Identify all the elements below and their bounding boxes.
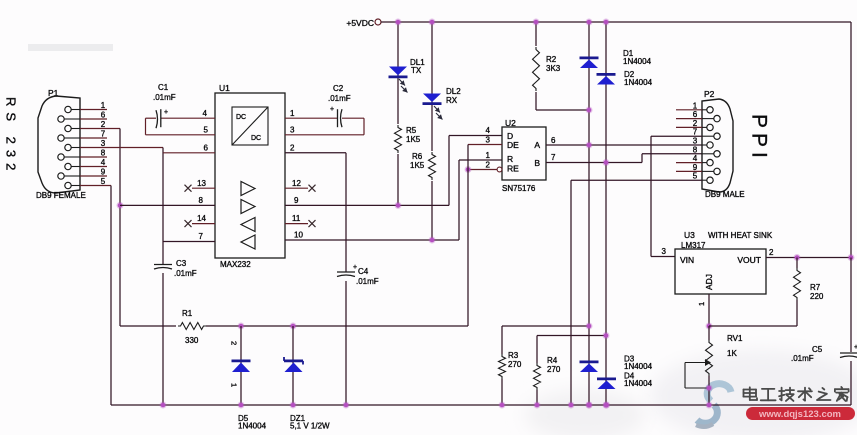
- svg-text:.01mF: .01mF: [356, 277, 379, 286]
- svg-text:4: 4: [693, 154, 698, 163]
- svg-text:MAX232: MAX232: [220, 260, 251, 269]
- svg-text:2: 2: [486, 161, 491, 170]
- svg-text:1: 1: [693, 101, 698, 110]
- svg-text:1N4004: 1N4004: [238, 422, 267, 431]
- svg-text:2: 2: [693, 119, 698, 128]
- svg-text:.01mF: .01mF: [328, 94, 351, 103]
- svg-text:2: 2: [290, 144, 295, 153]
- svg-text:6: 6: [204, 144, 209, 153]
- svg-text:4: 4: [203, 109, 208, 118]
- svg-text:5,1 V 1/2W: 5,1 V 1/2W: [290, 422, 330, 431]
- svg-text:1: 1: [101, 101, 106, 110]
- svg-text:R3: R3: [508, 351, 519, 360]
- svg-text:DE: DE: [507, 140, 519, 150]
- svg-text:7: 7: [101, 130, 106, 139]
- svg-text:LM317: LM317: [681, 241, 706, 250]
- svg-text:DL2: DL2: [446, 87, 461, 96]
- svg-text:1: 1: [230, 383, 239, 387]
- svg-text:R5: R5: [406, 126, 417, 135]
- svg-text:+: +: [353, 264, 357, 271]
- svg-text:C4: C4: [358, 267, 369, 276]
- svg-text:8: 8: [693, 145, 698, 154]
- svg-text:.01mF: .01mF: [174, 269, 197, 278]
- svg-text:6: 6: [101, 111, 106, 120]
- svg-text:R6: R6: [412, 152, 423, 161]
- svg-text:1N4004: 1N4004: [624, 362, 653, 371]
- svg-text:C1: C1: [158, 83, 169, 92]
- svg-text:RX: RX: [446, 96, 458, 105]
- svg-text:SN75176: SN75176: [502, 184, 536, 193]
- svg-text:9: 9: [101, 168, 106, 177]
- svg-text:2: 2: [769, 248, 774, 257]
- svg-text:270: 270: [547, 365, 561, 374]
- svg-text:+: +: [164, 109, 168, 116]
- svg-text:B: B: [534, 158, 540, 168]
- svg-text:P2: P2: [704, 89, 715, 99]
- svg-text:R: R: [507, 154, 513, 164]
- svg-text:1N4004: 1N4004: [624, 78, 653, 87]
- svg-text:U2: U2: [505, 118, 516, 128]
- svg-text:R1: R1: [182, 309, 193, 318]
- svg-text:11: 11: [292, 214, 301, 223]
- svg-text:5: 5: [693, 172, 698, 181]
- svg-text:1: 1: [486, 151, 491, 160]
- svg-text:.01mF: .01mF: [153, 93, 176, 102]
- svg-text:A: A: [534, 140, 540, 150]
- svg-text:8: 8: [199, 196, 204, 205]
- svg-text:9: 9: [693, 163, 698, 172]
- svg-text:4: 4: [486, 126, 491, 135]
- svg-text:2: 2: [101, 120, 106, 129]
- svg-text:U3: U3: [684, 230, 695, 240]
- svg-text:DB9 FEMALE: DB9 FEMALE: [36, 191, 86, 200]
- svg-text:+5VDC: +5VDC: [346, 18, 374, 28]
- svg-text:+: +: [330, 106, 334, 113]
- svg-text:3: 3: [290, 126, 295, 135]
- svg-text:5: 5: [101, 177, 106, 186]
- svg-text:5: 5: [204, 126, 209, 135]
- svg-text:13: 13: [197, 179, 206, 188]
- svg-text:7: 7: [199, 232, 204, 241]
- svg-text:VOUT: VOUT: [737, 255, 761, 265]
- svg-text:ADJ: ADJ: [704, 274, 714, 290]
- svg-text:3: 3: [101, 139, 106, 148]
- svg-text:3K3: 3K3: [546, 64, 561, 73]
- svg-text:1K: 1K: [727, 349, 737, 358]
- svg-text:7: 7: [693, 128, 698, 137]
- svg-text:R2: R2: [546, 55, 557, 64]
- svg-text:RE: RE: [507, 164, 519, 174]
- svg-text:1K5: 1K5: [410, 161, 425, 170]
- svg-text:U1: U1: [219, 83, 230, 93]
- svg-text:3: 3: [662, 247, 667, 256]
- svg-text:4: 4: [101, 158, 106, 167]
- svg-text:1N4004: 1N4004: [624, 379, 653, 388]
- svg-text:VIN: VIN: [680, 255, 694, 265]
- svg-text:www.dqjs123.com: www.dqjs123.com: [758, 409, 841, 420]
- svg-text:C5: C5: [812, 345, 823, 354]
- svg-text:DC: DC: [236, 114, 246, 121]
- svg-text:C3: C3: [176, 259, 187, 268]
- svg-text:14: 14: [197, 214, 206, 223]
- svg-text:270: 270: [508, 360, 522, 369]
- svg-text:1: 1: [697, 302, 706, 306]
- svg-text:9: 9: [294, 196, 299, 205]
- svg-text:R7: R7: [810, 283, 821, 292]
- svg-text:PPI: PPI: [748, 114, 771, 163]
- svg-text:12: 12: [292, 179, 301, 188]
- svg-text:2: 2: [230, 341, 239, 345]
- svg-text:WITH HEAT SINK: WITH HEAT SINK: [708, 231, 773, 240]
- svg-text:RV1: RV1: [727, 334, 743, 343]
- svg-text:1N4004: 1N4004: [623, 57, 652, 66]
- svg-text:RS 232: RS 232: [4, 97, 19, 176]
- svg-text:1K5: 1K5: [406, 135, 421, 144]
- svg-text:3: 3: [486, 136, 491, 145]
- svg-text:C2: C2: [333, 84, 344, 93]
- svg-text:6: 6: [693, 110, 698, 119]
- svg-text:.01mF: .01mF: [791, 354, 814, 363]
- svg-text:3: 3: [693, 137, 698, 146]
- svg-text:R4: R4: [547, 356, 558, 365]
- svg-text:330: 330: [185, 336, 199, 345]
- svg-text:DB9 MALE: DB9 MALE: [705, 190, 745, 199]
- svg-text:10: 10: [294, 231, 303, 240]
- svg-text:7: 7: [551, 153, 556, 162]
- svg-text:6: 6: [551, 136, 556, 145]
- svg-text:220: 220: [810, 292, 824, 301]
- svg-text:1: 1: [290, 109, 295, 118]
- svg-text:DC: DC: [251, 135, 261, 142]
- svg-text:8: 8: [101, 149, 106, 158]
- svg-text:TX: TX: [411, 66, 422, 75]
